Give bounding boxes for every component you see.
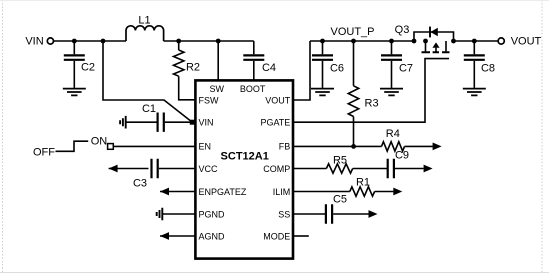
arrow COMP [424,165,433,173]
node C2 junction [72,39,77,44]
svg-text:C5: C5 [333,194,347,206]
node R2 junction [176,39,181,44]
node C7 junction [389,39,394,44]
capacitor C1 [126,121,157,123]
wire [160,191,195,193]
arrow AGND [160,232,169,240]
svg-text:COMP: COMP [263,164,290,174]
svg-text:BOOT: BOOT [240,84,266,94]
svg-text:AGND: AGND [199,231,226,241]
svg-text:C6: C6 [330,63,344,75]
svg-text:PGND: PGND [199,209,226,219]
svg-text:C3: C3 [133,178,147,190]
svg-text:C7: C7 [399,63,413,75]
wire EN [113,145,195,147]
svg-text:FSW: FSW [199,95,220,105]
svg-text:VOUT: VOUT [511,36,542,48]
ground sideways PGND [157,208,163,221]
capacitor C8 [473,41,475,54]
wire SW [217,41,219,80]
wire ILIM [293,191,350,193]
node R3 junction [351,39,356,44]
node FB junction [351,144,356,149]
wire [109,168,149,170]
node VIN pin [190,120,195,125]
node Q3 source junction [412,39,417,44]
svg-text:C1: C1 [142,103,156,115]
arrow ENPGATEZ [160,188,169,196]
node C6 junction [320,39,325,44]
wire to VIN pin [103,41,192,122]
node EN input square [108,144,114,150]
capacitor C7 [391,41,393,54]
capacitor C9 [388,159,394,178]
svg-text:R5: R5 [333,155,347,167]
resistor R3 [353,41,355,86]
svg-text:OFF: OFF [33,147,55,159]
node Q3 drain junction [451,39,456,44]
wire VOUT pin [293,41,310,100]
svg-text:L1: L1 [138,15,150,27]
resistor R2 [178,41,180,50]
svg-text:ON: ON [91,136,108,148]
transistor Q3 body [426,41,447,51]
resistor R1 [350,187,375,196]
svg-text:ILIM: ILIM [273,187,291,197]
svg-text:VOUT_P: VOUT_P [330,26,374,38]
capacitor C4 [253,41,255,54]
terminal VOUT [498,38,504,44]
capacitor C3 [152,159,158,178]
svg-text:SCT12A1: SCT12A1 [221,151,269,163]
svg-text:VCC: VCC [199,164,219,174]
wire SS [293,213,326,215]
arrow ILIM [393,188,402,196]
svg-text:VIN: VIN [199,118,214,128]
svg-text:R3: R3 [365,98,379,110]
svg-text:Q3: Q3 [395,24,410,36]
wire [162,213,195,215]
wire MODE [293,235,309,237]
wire Q3 gate to PGATE [293,59,449,123]
wire [454,40,499,42]
wire [160,235,195,237]
wire VOUT_P rail [310,40,414,42]
arrow FB [433,143,442,151]
ground [463,89,486,96]
resistor R4 [382,142,405,151]
svg-text:R4: R4 [386,128,400,140]
capacitor C5 [326,204,332,223]
inductor L1 [126,26,164,41]
svg-text:EN: EN [199,142,212,152]
svg-text:SS: SS [278,209,290,219]
svg-text:C8: C8 [481,63,495,75]
resistor R5 [326,164,352,173]
wire FB [293,145,382,147]
svg-text:VOUT: VOUT [265,95,291,105]
node C8 junction [472,39,477,44]
capacitor C2 [73,41,75,54]
node VIN-branch junction [101,39,106,44]
wire [54,40,126,42]
svg-text:ENPGATEZ: ENPGATEZ [199,187,247,197]
ground sideways [120,116,126,129]
svg-text:MODE: MODE [263,231,290,241]
terminal VIN [47,38,53,44]
capacitor C6 [322,41,324,54]
svg-text:FB: FB [279,142,291,152]
svg-text:C4: C4 [262,62,276,74]
svg-text:C2: C2 [81,62,95,74]
svg-text:VIN: VIN [25,36,43,48]
node SW junction [216,39,221,44]
svg-text:PGATE: PGATE [260,118,290,128]
svg-text:SW: SW [209,84,224,94]
node Q3 source-body junction [423,39,428,44]
ground [63,89,86,96]
svg-text:R2: R2 [186,62,200,74]
ground [380,89,403,96]
ground [311,89,334,96]
wire ON-OFF step [56,141,89,151]
op-amp U1 SCT12A1 block [195,80,293,258]
diode body of Q3 [414,32,454,41]
wire [164,40,254,42]
arrow VCC [109,165,118,173]
svg-text:R1: R1 [356,177,370,189]
arrow SS [369,210,378,218]
svg-text:C9: C9 [395,150,409,162]
wire COMP [293,168,326,170]
